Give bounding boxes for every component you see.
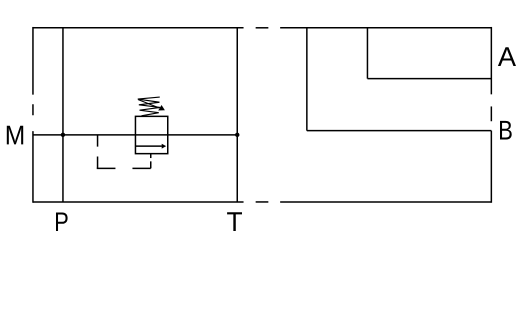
enclosure left edge lower segment bbox=[32, 131, 34, 203]
enclosure top edge left segment bbox=[33, 27, 244, 29]
wire B branch vertical bbox=[306, 28, 308, 131]
port label P bbox=[56, 212, 68, 231]
enclosure top edge right segment bbox=[280, 27, 491, 29]
port label T bbox=[227, 212, 242, 231]
relief valve V1 bottom stub bbox=[150, 154, 152, 158]
wire B port horizontal bbox=[307, 130, 492, 132]
port label A bbox=[498, 47, 516, 66]
enclosure left edge dash bbox=[32, 104, 34, 115]
enclosure bottom edge right segment bbox=[280, 201, 491, 203]
enclosure top edge dash bbox=[256, 27, 269, 29]
port label M bbox=[7, 126, 23, 145]
wire T line vertical bbox=[236, 28, 238, 202]
enclosure left edge upper segment bbox=[32, 27, 34, 95]
relief valve V1 flow path arrowhead bbox=[162, 144, 167, 149]
relief valve V1 body bbox=[135, 116, 167, 153]
pilot line dashed right vertical bbox=[150, 161, 152, 168]
relief valve V1 flow path line bbox=[135, 145, 161, 147]
wire M line horizontal bbox=[33, 134, 237, 136]
enclosure right edge dash bbox=[490, 106, 492, 121]
enclosure right edge lower segment bbox=[490, 131, 492, 203]
enclosure right edge upper segment bbox=[490, 27, 492, 94]
enclosure bottom edge dash bbox=[256, 201, 269, 203]
pilot line dashed left vertical bbox=[97, 135, 99, 169]
relief valve V1 adjustment arrowhead bbox=[158, 105, 165, 111]
node junction T-M bbox=[235, 133, 239, 137]
enclosure bottom edge left segment bbox=[33, 201, 244, 203]
wire A port horizontal bbox=[367, 78, 491, 80]
pilot line dashed bottom horizontal bbox=[97, 167, 151, 169]
port label B bbox=[500, 121, 512, 140]
relief valve V1 adjustment arrow shaft bbox=[138, 100, 159, 108]
relief valve V1 spring bbox=[138, 97, 160, 116]
wire A branch vertical bbox=[366, 28, 368, 79]
node junction P-M bbox=[61, 133, 65, 137]
wire P line vertical bbox=[62, 28, 64, 202]
